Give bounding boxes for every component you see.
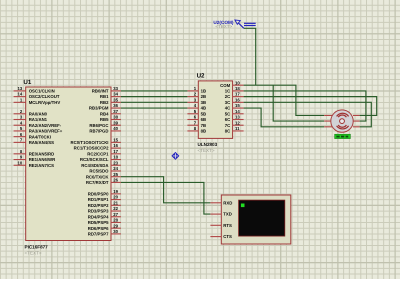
pin U1.9 RE1/AN6/WR (14, 155, 56, 163)
pin U2.17 2C (225, 92, 244, 100)
svg-text:33: 33 (113, 86, 118, 91)
pin U1.27 RD4/PSP4 (88, 212, 121, 220)
svg-text:RD0/PSP0: RD0/PSP0 (88, 191, 109, 196)
op: IC U1 body (26, 87, 111, 241)
svg-text:<TEXT>: <TEXT> (198, 148, 215, 153)
pin U2.15 4C (225, 103, 244, 111)
wire power to U2.COM and motor common (244, 28, 325, 115)
svg-text:RC7/RX/DT: RC7/RX/DT (86, 180, 109, 185)
svg-text:6C: 6C (225, 117, 231, 122)
svg-text:12: 12 (235, 120, 240, 125)
svg-text:RA1/AN1: RA1/AN1 (29, 117, 48, 122)
svg-text:8B: 8B (201, 129, 207, 134)
svg-text:RA5/AN4/SS: RA5/AN4/SS (29, 140, 54, 145)
pin U2.4 4B (187, 103, 206, 111)
pin U1.21 RD2/PSP2 (88, 200, 121, 208)
wire U1.RB2 to U2.3B (121, 101, 187, 103)
svg-text:34: 34 (113, 92, 118, 97)
pin U1.19 RD0/PSP0 (88, 189, 121, 197)
pin U1.15 RC0/T1OSO/T1CKI (71, 137, 121, 145)
pin U1.3 RA1/AN1 (14, 115, 48, 123)
wire U2.1C to motor right middle (244, 91, 366, 121)
svg-text:13: 13 (18, 86, 23, 91)
svg-text:36: 36 (113, 103, 118, 108)
svg-text:16: 16 (235, 97, 240, 102)
pin U1.14 OSC2/CLKOUT (14, 92, 60, 100)
svg-text:19: 19 (113, 189, 118, 194)
pin U1.17 RC2/CCP1 (87, 149, 121, 157)
svg-text:RB7/PGD: RB7/PGD (89, 129, 108, 134)
svg-text:4B: 4B (201, 106, 207, 111)
svg-text:17: 17 (235, 92, 240, 97)
svg-text:ULN2803: ULN2803 (198, 142, 218, 147)
svg-text:15: 15 (113, 137, 118, 142)
svg-text:RC6/TX/CK: RC6/TX/CK (86, 174, 110, 179)
svg-text:RTS: RTS (223, 223, 232, 228)
wire U1.RB1 to U2.2B (121, 96, 187, 98)
pin U1.35 RB2 (100, 97, 121, 105)
svg-text:RC4/SDI/SDA: RC4/SDI/SDA (81, 163, 108, 168)
svg-text:7C: 7C (225, 123, 231, 128)
svg-text:RA3/AN3/VREF+: RA3/AN3/VREF+ (29, 129, 63, 134)
pin U1.6 RA4/T0CKI (14, 132, 51, 140)
svg-text:3C: 3C (225, 100, 231, 105)
pin U2.2 2B (187, 92, 206, 100)
svg-text:RD6/PSP6: RD6/PSP6 (88, 226, 109, 231)
svg-text:U1: U1 (23, 79, 31, 86)
svg-text:38: 38 (113, 115, 118, 120)
pin U2.3 3B (187, 97, 206, 105)
svg-text:RB3/PGM: RB3/PGM (89, 106, 109, 111)
svg-text:40: 40 (113, 126, 118, 131)
svg-text:RA0/AN0: RA0/AN0 (29, 111, 48, 116)
label U1 value PIC16F877 (25, 244, 49, 255)
svg-text:10: 10 (235, 80, 240, 85)
svg-text:RC3/SCK/SCL: RC3/SCK/SCL (80, 157, 109, 162)
pin U1.38 RB5 (100, 115, 121, 123)
svg-text:RE2/AN7/CS: RE2/AN7/CS (29, 163, 54, 168)
pin U1.23 RC4/SDI/SDA (81, 160, 121, 168)
svg-text:RB4: RB4 (100, 111, 109, 116)
pin U1.13 OSC1/CLKIN (14, 86, 55, 94)
pin U1.5 RA3/AN3/VREF+ (14, 126, 63, 134)
svg-text:16: 16 (113, 143, 118, 148)
pin U1.30 RD7/PSP7 (88, 229, 121, 237)
svg-text:OSC1/CLKIN: OSC1/CLKIN (29, 89, 55, 94)
svg-text:11: 11 (235, 126, 240, 131)
pin U1.4 RA2/AN2/VREF- (14, 120, 62, 128)
wire U1.RC6/TX to terminal RXD (121, 177, 210, 203)
pin U2.5 5B (187, 109, 206, 117)
pin U1.16 RC1/T1OSI/CCP2 (74, 143, 121, 151)
pin U1.1 MCLR/Vpp/THV (14, 97, 61, 105)
svg-text:RD5/PSP5: RD5/PSP5 (88, 220, 109, 225)
svg-text:37: 37 (113, 109, 118, 114)
svg-text:TXD: TXD (223, 212, 232, 217)
wire U1.RB3 to U2.4B (121, 107, 187, 109)
svg-text:3B: 3B (201, 100, 207, 105)
pin U1.29 RD6/PSP6 (88, 223, 121, 231)
svg-text:CTS: CTS (223, 234, 232, 239)
svg-text:18: 18 (235, 86, 240, 91)
svg-text:PIC16F877: PIC16F877 (25, 244, 49, 249)
svg-text:RB2: RB2 (100, 100, 109, 105)
label U2 value ULN2803 (198, 142, 218, 153)
pin U2.7 7B (187, 120, 206, 128)
svg-text:5B: 5B (201, 111, 207, 116)
pin U1.40 RB7/PGD (89, 126, 121, 134)
svg-text:27: 27 (113, 212, 118, 217)
svg-text:26: 26 (113, 178, 118, 183)
svg-text:6B: 6B (201, 117, 207, 122)
svg-text:<TEXT>: <TEXT> (215, 24, 232, 29)
svg-text:RD4/PSP4: RD4/PSP4 (88, 214, 109, 219)
svg-text:RC5/SDO: RC5/SDO (89, 169, 109, 174)
pin VT1.RXD (210, 200, 232, 205)
svg-text:MCLR/Vpp/THV: MCLR/Vpp/THV (29, 100, 61, 105)
svg-text:OSC2/CLKOUT: OSC2/CLKOUT (29, 94, 60, 99)
pin U2.11 8C (225, 126, 244, 134)
pin U1.20 RD1/PSP1 (88, 195, 121, 203)
svg-text:23: 23 (113, 160, 118, 165)
svg-text:<TEXT>: <TEXT> (25, 250, 42, 255)
pin VT1.RTS (210, 223, 232, 228)
svg-text:7B: 7B (201, 123, 207, 128)
svg-text:RC1/T1OSI/CCP2: RC1/T1OSI/CCP2 (74, 146, 109, 151)
svg-text:25: 25 (113, 172, 118, 177)
pin U2.8 8B (187, 126, 206, 134)
svg-text:2B: 2B (201, 94, 207, 99)
svg-text:13: 13 (235, 115, 240, 120)
pin U2.6 6B (187, 115, 206, 123)
svg-text:21: 21 (113, 200, 118, 205)
pin U1.25 RC6/TX/CK (86, 172, 121, 180)
pin U2.10 COM (220, 80, 243, 88)
op: IC U2 body (198, 81, 232, 138)
wire U2.3C to motor right lower (244, 102, 372, 126)
svg-text:RB6/PGC: RB6/PGC (89, 123, 108, 128)
svg-text:RD2/PSP2: RD2/PSP2 (88, 203, 109, 208)
pin U1.8 RE0/AN5/RD (14, 149, 55, 157)
svg-text:RC0/T1OSO/T1CKI: RC0/T1OSO/T1CKI (71, 140, 109, 145)
svg-text:RB5: RB5 (100, 117, 109, 122)
pin U2.14 5C (225, 109, 244, 117)
svg-text:8C: 8C (225, 129, 231, 134)
svg-text:28: 28 (113, 218, 118, 223)
svg-text:RE0/AN5/RD: RE0/AN5/RD (29, 151, 55, 156)
pin U2.16 3C (225, 97, 244, 105)
svg-text:RA2/AN2/VREF-: RA2/AN2/VREF- (29, 123, 62, 128)
label U2 refdes (197, 73, 205, 80)
svg-text:RB0/INT: RB0/INT (92, 89, 109, 94)
svg-text:RE1/AN6/WR: RE1/AN6/WR (29, 157, 56, 162)
svg-text:RA4/T0CKI: RA4/T0CKI (29, 134, 51, 139)
svg-text:18: 18 (113, 155, 118, 160)
pin U2.18 1C (225, 86, 244, 94)
svg-text:5C: 5C (225, 111, 231, 116)
svg-text:24: 24 (113, 166, 118, 171)
svg-text:39: 39 (113, 120, 118, 125)
svg-text:10: 10 (18, 160, 23, 165)
svg-text:RXD: RXD (223, 200, 232, 205)
motor M1 stepper pins (324, 115, 359, 126)
pin U1.18 RC3/SCK/SCL (80, 155, 121, 163)
svg-text:1C: 1C (225, 89, 231, 94)
pin U2.12 7C (225, 120, 244, 128)
svg-text:1B: 1B (201, 89, 207, 94)
svg-text:RC2/CCP1: RC2/CCP1 (87, 151, 109, 156)
svg-text:COM: COM (220, 83, 230, 88)
label power net U2(COM) (213, 20, 233, 29)
pin U1.36 RB3/PGM (89, 103, 121, 111)
pin U1.10 RE2/AN7/CS (14, 160, 55, 168)
svg-text:RD3/PSP3: RD3/PSP3 (88, 209, 109, 214)
svg-text:30: 30 (113, 229, 118, 234)
svg-text:RD1/PSP1: RD1/PSP1 (88, 197, 109, 202)
pin U1.7 RA5/AN4/SS (14, 137, 55, 145)
motor M1 value display (335, 134, 351, 138)
svg-text:14: 14 (235, 109, 240, 114)
pin U1.28 RD5/PSP5 (88, 218, 121, 226)
motor M1 stepper body (331, 110, 353, 132)
pin U1.22 RD3/PSP3 (88, 206, 121, 214)
wire U2.4C to motor left lower (244, 108, 325, 127)
label U1 refdes (23, 79, 31, 86)
virtual terminal VT1 body (221, 195, 290, 244)
svg-text:20: 20 (113, 195, 118, 200)
svg-text:RD7/PSP7: RD7/PSP7 (88, 232, 109, 237)
pin U1.37 RB4 (100, 109, 121, 117)
svg-text:17: 17 (113, 149, 118, 154)
svg-text:RB1: RB1 (100, 94, 109, 99)
wire U1.RC7/RX to terminal TXD (121, 182, 210, 214)
pin U1.33 RB0/INT (92, 86, 121, 94)
power terminal U2(COM) symbol (235, 20, 256, 28)
pin VT1.CTS (210, 234, 232, 239)
svg-text:29: 29 (113, 223, 118, 228)
svg-text:15: 15 (235, 103, 240, 108)
wire U2.2C to motor right upper (244, 97, 377, 116)
pin U1.34 RB1 (100, 92, 121, 100)
svg-text:4C: 4C (225, 106, 231, 111)
pin VT1.TXD (210, 212, 232, 217)
pin U1.26 RC7/RX/DT (86, 178, 121, 186)
wire common branch to motor left middle (273, 85, 324, 121)
svg-text:14: 14 (18, 92, 23, 97)
svg-text:U2: U2 (197, 73, 205, 80)
svg-text:2C: 2C (225, 94, 231, 99)
pin U2.1 1B (187, 86, 206, 94)
node marker (blue diamond) (171, 152, 179, 160)
pin U1.2 RA0/AN0 (14, 109, 48, 117)
wire U1.RB0 to U2.1B (121, 90, 187, 92)
pin U2.13 6C (225, 115, 244, 123)
svg-text:35: 35 (113, 97, 118, 102)
pin U1.39 RB6/PGC (89, 120, 121, 128)
pin U1.24 RC5/SDO (89, 166, 121, 174)
svg-text:22: 22 (113, 206, 118, 211)
